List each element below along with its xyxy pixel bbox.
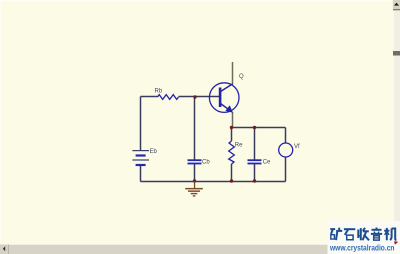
- svg-text:Ce: Ce: [263, 160, 271, 166]
- svg-text:Vf: Vf: [294, 144, 300, 150]
- svg-text:Q: Q: [239, 74, 244, 80]
- svg-text:Cb: Cb: [202, 160, 210, 166]
- svg-text:www.crystalradio.cn: www.crystalradio.cn: [329, 244, 394, 253]
- svg-text:Re: Re: [235, 143, 243, 149]
- svg-text:Rb: Rb: [155, 89, 163, 95]
- svg-text:Eb: Eb: [150, 149, 158, 155]
